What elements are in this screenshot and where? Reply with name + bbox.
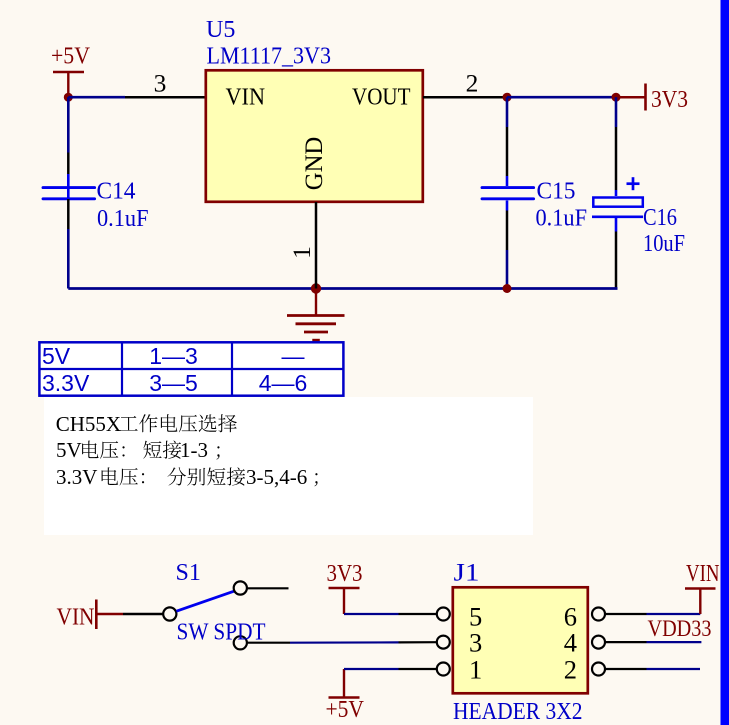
table frame [39, 342, 343, 395]
pin 5 circle [437, 608, 450, 621]
capacitor C16 (polarized) [592, 127, 643, 289]
svg-text:C16: C16 [643, 205, 677, 231]
power port +5V (top-left) [51, 44, 91, 98]
wire 3V3 down to C16 [615, 97, 618, 127]
svg-text:3-5,4-6: 3-5,4-6 [246, 465, 307, 489]
power port VIN (bottom-right) [685, 561, 720, 614]
power port +5V (bottom) [326, 669, 365, 723]
svg-text:0.1uF: 0.1uF [97, 206, 149, 232]
svg-text:3V3: 3V3 [651, 87, 688, 113]
svg-text:1: 1 [287, 246, 316, 259]
svg-text:C14: C14 [97, 179, 136, 205]
pin 1 of U5 [287, 202, 316, 289]
svg-text:VOUT: VOUT [352, 85, 411, 111]
svg-text:0.1uF: 0.1uF [536, 206, 588, 232]
wire VIN to switch [123, 613, 163, 616]
svg-text:1-3: 1-3 [180, 438, 208, 462]
power port VIN (bottom-left) [57, 600, 124, 631]
svg-text:VIN: VIN [686, 561, 720, 587]
junction node +5V/C14 [64, 93, 73, 102]
svg-text:LM1117_3V3: LM1117_3V3 [207, 44, 332, 70]
svg-text:+5V: +5V [326, 697, 365, 723]
svg-text:5V: 5V [56, 438, 82, 462]
wire switch throw2 to J1 pin3 [248, 642, 291, 644]
svg-text:3.3V: 3.3V [42, 370, 90, 396]
svg-text:2: 2 [466, 69, 479, 98]
svg-text:HEADER 3X2: HEADER 3X2 [453, 699, 583, 725]
junction node VOUT/C15 [503, 93, 512, 102]
svg-text:4: 4 [564, 628, 577, 658]
wire C14 to gnd bus [67, 229, 70, 289]
svg-text:2: 2 [564, 654, 577, 684]
wire VOUT down to C15 [506, 97, 509, 127]
svg-text:C15: C15 [537, 179, 576, 205]
pin 3 circle [437, 636, 450, 649]
wire C15 to gnd bus [506, 250, 509, 289]
svg-text:1: 1 [469, 654, 482, 684]
svg-text:10uF: 10uF [643, 231, 685, 257]
switch S1 SW-SPDT [163, 581, 247, 649]
svg-text:3—5: 3—5 [149, 370, 198, 396]
power port 3V3 (top-right) [616, 84, 688, 114]
connector J1 body [453, 587, 588, 693]
pin 2 of U5 [423, 69, 507, 98]
power port 3V3 (bottom) [327, 561, 363, 614]
svg-text:CH55X: CH55X [56, 412, 121, 436]
wire switch throw1 stub [248, 587, 289, 589]
junction node C16/3V3 [612, 93, 621, 102]
wire +5V to pin3 [68, 96, 125, 99]
wire +5V to J1 pin1 [344, 668, 399, 670]
wire J1 pin6 to VIN [606, 613, 647, 615]
pin 6 circle [592, 608, 605, 621]
svg-text:VIN: VIN [57, 605, 95, 631]
capacitor C14 [43, 153, 95, 230]
svg-text:3: 3 [154, 69, 167, 98]
ground [287, 289, 345, 341]
svg-text:VIN: VIN [226, 85, 266, 111]
pin 1 circle [437, 663, 450, 676]
table row divider [39, 368, 343, 370]
table col divider 2 [231, 342, 233, 395]
junction node C15/bus [503, 284, 512, 293]
svg-text:—: — [282, 343, 305, 369]
IC U5 LM1117_3V3 body [206, 70, 423, 202]
svg-text:4—6: 4—6 [259, 370, 308, 396]
pin 4 circle [592, 636, 605, 649]
svg-text:1—3: 1—3 [149, 343, 198, 369]
wire 3V3 to J1 pin5 [344, 613, 399, 615]
wire ground bus [68, 287, 617, 290]
svg-text:J1: J1 [454, 560, 480, 587]
table col divider 1 [121, 342, 123, 395]
svg-text:3V3: 3V3 [327, 561, 363, 587]
wire J1 pin2 [606, 668, 647, 670]
svg-text:S1: S1 [176, 560, 201, 586]
svg-text:3.3V: 3.3V [56, 465, 97, 489]
svg-text:3: 3 [469, 628, 482, 658]
svg-text:U5: U5 [206, 17, 235, 43]
pin 3 of U5 [125, 69, 205, 98]
svg-text:5V: 5V [42, 343, 71, 369]
pin 2 circle [592, 663, 605, 676]
wire C15 to C16 top [507, 96, 616, 99]
note background [44, 397, 533, 535]
svg-text:+5V: +5V [51, 44, 91, 70]
svg-text:SW SPDT: SW SPDT [177, 620, 266, 646]
svg-text:VDD33: VDD33 [648, 616, 712, 641]
wire +5V down to C14 [67, 97, 70, 152]
svg-text:GND: GND [301, 137, 328, 191]
capacitor C15 [482, 127, 534, 250]
sheet edge bar [721, 0, 729, 725]
junction node GND pin/bus [311, 283, 321, 293]
wire J1 pin4 [606, 641, 647, 643]
